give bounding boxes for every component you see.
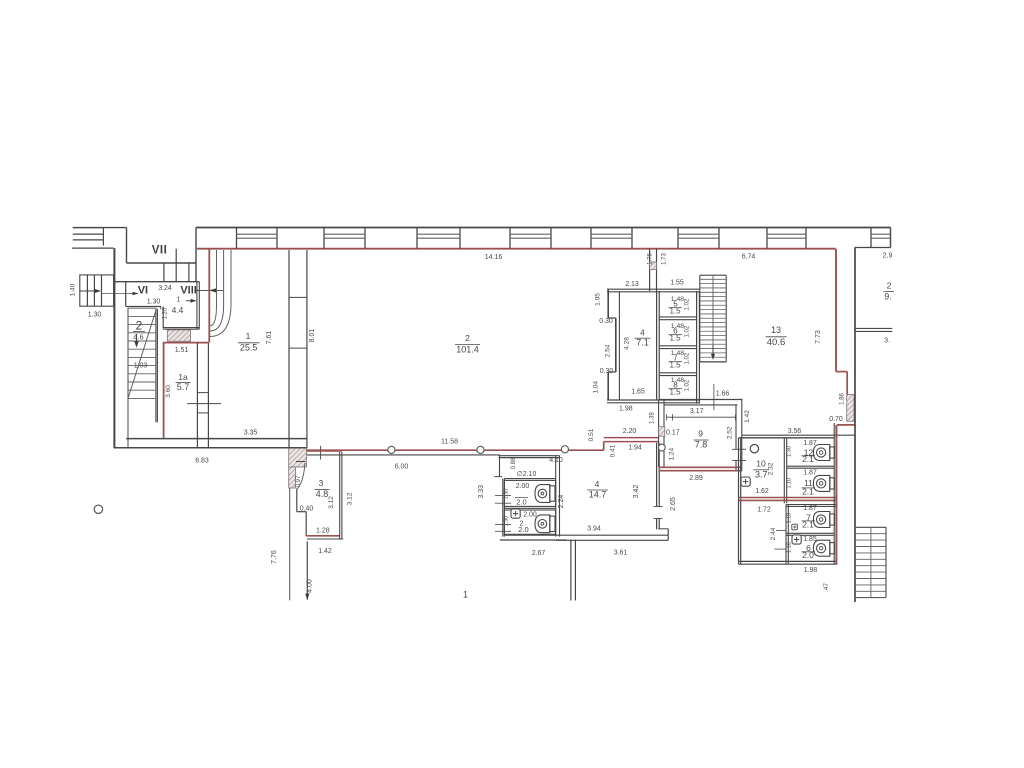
room10-stall wall upper xyxy=(783,438,785,503)
svg-text:3.7: 3.7 xyxy=(755,469,768,479)
room3 bottom black xyxy=(307,538,343,540)
svg-text:3.56: 3.56 xyxy=(788,428,802,435)
stall 7-6 left wall xyxy=(785,505,787,565)
dim line 1.30 xyxy=(102,293,139,295)
corridor top red xyxy=(837,424,855,426)
door arrow VIII xyxy=(186,300,196,302)
svg-text:2.52: 2.52 xyxy=(727,426,734,439)
svg-text:4: 4 xyxy=(640,327,645,337)
hatch on wall xyxy=(650,262,657,270)
toilet 6 xyxy=(830,543,835,554)
column circle 3 xyxy=(561,446,568,453)
top outer wall left of recess xyxy=(73,227,127,229)
svg-text:1.5: 1.5 xyxy=(669,388,681,397)
divider 7-8 xyxy=(659,372,696,374)
svg-text:4.6: 4.6 xyxy=(133,333,143,342)
svg-text:1.72: 1.72 xyxy=(757,507,771,514)
svg-text:4.00: 4.00 xyxy=(306,579,313,593)
window W2 xyxy=(323,228,325,249)
svg-text:2.65: 2.65 xyxy=(670,497,677,511)
VII recess xyxy=(126,228,128,263)
svg-text:1.87: 1.87 xyxy=(803,470,817,477)
svg-text:0.41: 0.41 xyxy=(610,444,617,457)
svg-text:1.55: 1.55 xyxy=(670,279,684,286)
wall ticks xyxy=(289,296,307,298)
svg-text:14.7: 14.7 xyxy=(589,490,607,500)
sink stall7 xyxy=(792,524,798,530)
stalls bottom wall xyxy=(739,560,838,562)
svg-text:3.12: 3.12 xyxy=(328,496,335,509)
svg-text:2.24: 2.24 xyxy=(558,495,565,509)
room9 top wall xyxy=(659,399,743,401)
window W5 xyxy=(590,228,592,249)
svg-text:1.10: 1.10 xyxy=(787,542,793,553)
stalls right red wall xyxy=(833,423,835,564)
long wall below left xyxy=(289,488,291,600)
wc B door ticks xyxy=(495,524,511,526)
wc room A box xyxy=(504,480,555,506)
svg-text:2.00: 2.00 xyxy=(516,483,530,490)
svg-text:6.83: 6.83 xyxy=(195,458,209,465)
svg-text:1.98: 1.98 xyxy=(804,567,818,574)
svg-text:1.02: 1.02 xyxy=(685,298,691,310)
staircase 13 xyxy=(700,274,726,276)
svg-text:.47: .47 xyxy=(823,583,830,592)
wall from top wall down xyxy=(649,249,651,291)
top-right wall end xyxy=(890,228,892,248)
svg-text:6.00: 6.00 xyxy=(395,463,409,470)
svg-text:1.04: 1.04 xyxy=(592,380,599,393)
svg-text:7.73: 7.73 xyxy=(815,330,822,344)
svg-text:3.12: 3.12 xyxy=(347,492,354,505)
toilet 12 xyxy=(830,447,835,458)
bottom wall of left block inner xyxy=(126,438,307,440)
svg-text:1.87: 1.87 xyxy=(803,505,817,512)
room4b inner left xyxy=(618,292,620,400)
svg-text:7.76: 7.76 xyxy=(271,550,278,564)
wall below room4 xyxy=(570,540,572,601)
vestibule VI left wall xyxy=(125,282,127,307)
svg-text:0.17: 0.17 xyxy=(666,430,680,437)
svg-text:3.17: 3.17 xyxy=(690,408,704,415)
room13 red jog xyxy=(836,371,847,373)
svg-text:1.42: 1.42 xyxy=(744,410,751,423)
column circle 1 xyxy=(388,446,395,453)
svg-text:8.01: 8.01 xyxy=(309,329,316,343)
window W4 xyxy=(509,228,511,249)
vestibule VI bottom wall xyxy=(126,306,161,308)
window W1 xyxy=(236,228,238,249)
vestibule top wall xyxy=(114,281,200,283)
svg-text:2.13: 2.13 xyxy=(625,281,639,288)
column circle 2 xyxy=(477,446,484,453)
top outer wall xyxy=(196,227,891,229)
red wall bottom of room2 xyxy=(307,449,604,451)
window W7 xyxy=(766,228,768,249)
window W3 xyxy=(416,228,418,249)
sink room10 circle xyxy=(750,445,758,453)
room VIII bottom wall xyxy=(163,327,199,329)
svg-text:5.7: 5.7 xyxy=(177,382,190,392)
svg-text:3.61: 3.61 xyxy=(614,549,628,556)
svg-text:1: 1 xyxy=(177,297,181,304)
sink room10 xyxy=(741,477,750,486)
svg-text:3.33: 3.33 xyxy=(478,485,485,499)
hatched pier xyxy=(289,448,307,467)
room4b left wall xyxy=(607,289,609,318)
svg-text:1.02: 1.02 xyxy=(685,352,691,364)
svg-text:∅2.10: ∅2.10 xyxy=(517,471,537,478)
svg-text:7.1: 7.1 xyxy=(636,338,649,348)
svg-text:40.6: 40.6 xyxy=(767,337,786,348)
red wall step xyxy=(603,442,605,451)
room9 bottom red xyxy=(659,466,742,468)
svg-text:10: 10 xyxy=(756,458,766,468)
dim tick xyxy=(320,446,322,460)
svg-text:VIII: VIII xyxy=(180,285,197,297)
wc mid wall xyxy=(504,507,555,509)
divider 5-6 xyxy=(659,316,696,318)
room4b top wall xyxy=(607,288,699,290)
svg-text:0.88: 0.88 xyxy=(511,457,517,469)
svg-text:3: 3 xyxy=(319,478,324,488)
toilet 7 xyxy=(830,514,835,525)
wc outer left wall xyxy=(502,479,504,537)
wc bottom outer xyxy=(500,539,567,541)
window W8 right end xyxy=(870,228,872,248)
toilet B xyxy=(550,516,555,531)
door arrow into room 1 xyxy=(195,289,224,291)
room4b bottom wall xyxy=(607,399,699,401)
svg-text:1.66: 1.66 xyxy=(716,391,730,398)
svg-text:3.: 3. xyxy=(884,338,890,345)
flue duct 1 xyxy=(210,250,217,326)
svg-text:4.10: 4.10 xyxy=(549,457,563,464)
svg-text:2: 2 xyxy=(465,333,470,343)
column circle bottom-left xyxy=(94,505,102,513)
wall between 1a and 1 xyxy=(196,343,198,448)
toilet 11 xyxy=(830,478,835,489)
window W6 xyxy=(677,228,679,249)
svg-text:1.30: 1.30 xyxy=(787,446,793,457)
svg-text:7.8: 7.8 xyxy=(695,440,708,450)
svg-text:1.30: 1.30 xyxy=(504,516,510,527)
flue ticks in wall xyxy=(197,392,208,394)
svg-text:1.65: 1.65 xyxy=(631,388,645,395)
svg-text:1.76: 1.76 xyxy=(648,253,654,265)
room4 door ticks xyxy=(654,506,663,508)
sink B xyxy=(511,509,520,518)
bottom wall of left block outer xyxy=(114,447,308,449)
room3 right wall xyxy=(339,452,341,539)
hatch right wall xyxy=(847,395,854,422)
divider 12-11 xyxy=(787,465,835,467)
room VIII right wall xyxy=(196,282,198,330)
red wall under 11 xyxy=(739,497,838,499)
svg-text:0.30: 0.30 xyxy=(599,318,613,325)
svg-text:3.94: 3.94 xyxy=(587,526,601,533)
staircase 2 arrow xyxy=(136,334,138,344)
svg-text:1.73: 1.73 xyxy=(662,253,668,265)
room4 wall endcap xyxy=(658,528,668,530)
svg-text:1.30: 1.30 xyxy=(147,298,161,305)
svg-text:1.39: 1.39 xyxy=(649,412,655,424)
line crossing wall xyxy=(187,403,221,405)
svg-text:1.62: 1.62 xyxy=(755,488,769,495)
svg-text:1.10: 1.10 xyxy=(787,513,793,524)
svg-text:0.51: 0.51 xyxy=(588,428,595,441)
room9 dim line xyxy=(666,416,736,418)
svg-text:1.5: 1.5 xyxy=(669,334,681,343)
room3 door arc xyxy=(297,463,305,489)
staircase 2 treads xyxy=(127,308,129,448)
hatch stub room9 xyxy=(659,427,665,436)
room9 left wall xyxy=(658,400,660,468)
outside stair xyxy=(80,275,114,306)
svg-text:1.28: 1.28 xyxy=(316,528,330,535)
wc left niche xyxy=(499,456,501,477)
svg-text:1.51: 1.51 xyxy=(175,347,189,354)
svg-text:3.24: 3.24 xyxy=(158,285,172,292)
stall7 top wall xyxy=(786,504,837,506)
svg-text:11.58: 11.58 xyxy=(441,439,458,446)
rooms5-8 right wall xyxy=(696,291,698,404)
svg-text:1.02: 1.02 xyxy=(685,325,691,337)
svg-text:1.20: 1.20 xyxy=(163,307,169,319)
svg-text:1: 1 xyxy=(246,331,251,341)
svg-text:1.40: 1.40 xyxy=(70,283,77,296)
svg-text:VII: VII xyxy=(152,245,168,257)
outside stair arrow xyxy=(80,290,97,292)
svg-text:1.5: 1.5 xyxy=(669,307,681,316)
hatched opening under VIII xyxy=(167,330,190,341)
svg-text:2.32: 2.32 xyxy=(768,462,775,475)
svg-text:2.0: 2.0 xyxy=(518,525,528,534)
svg-text:9.: 9. xyxy=(884,292,892,302)
svg-text:4: 4 xyxy=(595,479,600,489)
svg-text:25.5: 25.5 xyxy=(240,343,258,353)
svg-text:1.03: 1.03 xyxy=(134,363,148,370)
staircase bottom right xyxy=(856,526,886,528)
wall below room3 xyxy=(306,541,308,599)
room10 left wall xyxy=(738,438,740,565)
VII door lines xyxy=(163,263,165,281)
svg-text:1.10: 1.10 xyxy=(787,478,793,489)
svg-text:2: 2 xyxy=(136,319,143,333)
svg-text:2.67: 2.67 xyxy=(532,550,546,557)
svg-text:2.54: 2.54 xyxy=(604,344,611,357)
svg-text:VI: VI xyxy=(138,285,148,297)
svg-text:2.0: 2.0 xyxy=(516,497,526,506)
rooms5-8 left wall xyxy=(656,291,658,400)
svg-text:1.5: 1.5 xyxy=(669,361,681,370)
room 1 left red wall xyxy=(208,249,210,343)
wc A door ticks xyxy=(495,494,511,496)
corridor dim tick xyxy=(775,548,787,550)
svg-text:2.44: 2.44 xyxy=(770,527,777,540)
room3 top red xyxy=(307,450,342,452)
flue duct 2 xyxy=(210,250,224,331)
svg-text:1.87: 1.87 xyxy=(803,440,817,447)
flue duct 3 xyxy=(210,250,231,337)
svg-text:6.74: 6.74 xyxy=(742,254,756,261)
svg-text:2.20: 2.20 xyxy=(623,428,637,435)
svg-text:3.35: 3.35 xyxy=(244,429,258,436)
svg-text:1.05: 1.05 xyxy=(594,293,601,306)
svg-text:0.30: 0.30 xyxy=(600,368,614,375)
room10 top wall xyxy=(739,437,835,439)
svg-text:1.24: 1.24 xyxy=(669,447,676,460)
room 1a left red wall xyxy=(163,343,165,438)
wc room B box xyxy=(504,510,555,534)
svg-text:101.4: 101.4 xyxy=(456,345,479,355)
room3 left wall low xyxy=(296,489,298,512)
svg-text:1.02: 1.02 xyxy=(685,379,691,391)
toilet A xyxy=(550,486,555,501)
svg-text:4.28: 4.28 xyxy=(623,337,630,350)
svg-text:2.89: 2.89 xyxy=(689,475,703,482)
room 1a top red wall xyxy=(163,342,209,344)
svg-text:4.4: 4.4 xyxy=(172,305,184,315)
room VIII left wall xyxy=(162,307,164,329)
svg-text:2: 2 xyxy=(887,281,892,291)
divider 6-7 xyxy=(659,345,696,347)
svg-text:2.00: 2.00 xyxy=(523,512,537,519)
top wall inner red line xyxy=(197,248,836,250)
column circle room9 xyxy=(658,444,665,451)
svg-text:0.40: 0.40 xyxy=(300,505,314,512)
svg-text:3.60: 3.60 xyxy=(165,385,172,398)
svg-text:1.98: 1.98 xyxy=(619,406,633,413)
room4 right wall xyxy=(656,443,658,507)
room4 bottom wall xyxy=(504,534,668,536)
svg-text:13: 13 xyxy=(771,325,781,335)
room9 right wall xyxy=(735,405,737,449)
svg-text:9: 9 xyxy=(698,429,703,439)
entrance steps top-left xyxy=(73,227,104,229)
svg-text:1.30: 1.30 xyxy=(88,312,102,319)
svg-text:1.30: 1.30 xyxy=(504,489,510,500)
right outer wall xyxy=(854,248,856,603)
red wall upper pair xyxy=(604,437,659,439)
svg-text:1.94: 1.94 xyxy=(628,444,642,451)
staircase 13 arrow xyxy=(712,345,714,355)
left outer wall xyxy=(113,248,115,448)
svg-text:0.70: 0.70 xyxy=(829,416,843,423)
wc right wall xyxy=(555,456,557,537)
dim line 1.66 xyxy=(713,384,715,410)
wc top wall xyxy=(499,455,560,457)
svg-text:1a: 1a xyxy=(178,372,188,382)
svg-text:7.61: 7.61 xyxy=(266,331,273,345)
svg-text:1.42: 1.42 xyxy=(318,548,332,555)
right window xyxy=(855,327,892,329)
room13 right red wall xyxy=(835,249,837,372)
room3 bottom red xyxy=(306,535,339,537)
svg-text:2.9: 2.9 xyxy=(883,253,893,260)
divider 7-6 xyxy=(786,532,835,534)
corridor top wall xyxy=(742,434,855,436)
svg-text:3.42: 3.42 xyxy=(633,485,640,499)
sink stall6 xyxy=(792,535,801,544)
svg-text:1.86: 1.86 xyxy=(839,393,845,405)
svg-text:0.97: 0.97 xyxy=(296,475,302,487)
svg-text:14.16: 14.16 xyxy=(485,254,503,261)
svg-text:1: 1 xyxy=(463,590,468,600)
black line under red wall xyxy=(307,454,500,456)
svg-text:4.8: 4.8 xyxy=(316,489,329,499)
wall room1-room2 xyxy=(288,250,290,448)
room9 door ticks xyxy=(732,448,746,450)
